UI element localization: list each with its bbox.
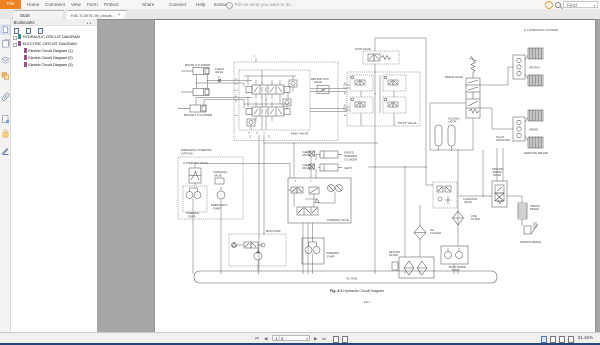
wire riser junction [482,150,484,196]
svg-text:BRAKE: BRAKE [530,207,539,211]
front slack adjuster [513,55,525,79]
svg-text:(LEFT): (LEFT) [344,166,352,170]
svg-text:VALVE: VALVE [302,166,310,170]
emergency charging valve [215,178,224,184]
steering valve box [288,178,351,223]
svg-text:PUMP: PUMP [452,268,460,272]
svg-text:LATOR: LATOR [448,120,457,124]
svg-text:A: A [295,180,297,183]
brake pump 2 [456,248,463,259]
parking brake actuator [522,219,538,234]
wire steering valve to tank [303,223,308,271]
oil cooler [414,226,426,240]
svg-text:STEERING: STEERING [344,154,357,158]
wire boom to main valve R2 [208,80,253,82]
svg-text:B3: B3 [344,83,346,85]
stop valve dashed box [363,51,399,64]
brake pump box [441,246,468,264]
svg-text:(FRONT): (FRONT) [529,66,540,70]
brake valve body [466,78,480,118]
status bar [0,332,600,343]
svg-text:Po2: Po2 [235,90,238,92]
svg-text:PILOT VALVE: PILOT VALVE [398,121,417,125]
wire cylinders to steering valve [311,155,320,179]
wire brake pump to tank [453,264,455,271]
svg-text:VALVE: VALVE [464,200,472,204]
svg-text:STEERING: STEERING [186,211,199,215]
page [155,20,595,332]
wire emergency pumps to tank [193,183,221,271]
wire main pump internals [237,245,264,271]
wire main valve spool stubs [251,80,293,130]
panel icon bookmarks (selected) [1,25,10,34]
svg-text:B: B [310,181,312,183]
accumulator 1 [435,125,442,146]
brake pump 1 [445,248,452,259]
main valve relief valve 3 [247,119,255,126]
panel icon signature [2,148,9,155]
wire right trunk down to charging valve [426,38,433,185]
rear brake disc lower [528,137,543,148]
wire stop valve riser [374,38,376,51]
menu bar [0,0,600,10]
line filter [453,211,464,225]
svg-text:T2: T2 [253,56,255,58]
wire main valve to pilot valve Po1 [310,109,347,112]
check valve [218,79,221,82]
steering cylinder right [320,151,342,158]
main pump relief [232,243,237,248]
wire bucket to main valve B1 [196,98,252,108]
wire parking valve risers [497,148,503,181]
steering valve meter [309,187,319,194]
main valve relief valve 2 [283,99,291,106]
return filter box [399,257,434,278]
front brake disc lower [528,75,543,86]
svg-text:STEERING VALVE: STEERING VALVE [327,218,349,222]
pilot valve unit 2 [383,75,406,91]
wire bucket to main valve A1 [204,100,244,109]
panel icon attachments [2,92,10,101]
wire return line [368,167,426,257]
svg-text:A2: A2 [235,83,237,86]
pilot valve unit 1 [350,75,373,91]
svg-text:PUMP: PUMP [327,255,335,259]
wire pilot valve center gallery [375,72,380,126]
parking brake valve [492,181,507,207]
main valve inner dashed box [239,70,310,130]
steering valve relief [315,199,319,203]
wire brake supply trunk [457,150,459,246]
svg-text:- 121 -: - 121 - [362,300,371,304]
wire steering valve internals [288,190,335,207]
wire main valve internal gallery [262,70,266,130]
svg-text:STEERING: STEERING [326,251,339,255]
emergency steering dashed box [178,157,243,219]
svg-text:A1: A1 [235,100,237,103]
svg-text:FILTER: FILTER [471,217,480,221]
wire main valve to pilot valve Po2 [310,89,347,92]
bucket cylinder [178,105,206,112]
steering pump (emergency) [186,188,201,199]
svg-text:PARKING BRAKE: PARKING BRAKE [520,240,541,244]
wire main valve pump line [263,135,265,235]
svg-text:CHARGING: CHARGING [213,170,227,174]
rear slack adjuster [513,117,525,141]
svg-text:B4: B4 [344,105,346,107]
steering pump [305,238,320,254]
return filter element 1 [404,261,414,275]
svg-text:BRAKE VALVE: BRAKE VALVE [445,75,463,79]
main valve spool 2 (bucket section) [246,107,290,116]
svg-text:EMERGENCY STEERING: EMERGENCY STEERING [181,148,212,152]
svg-text:(OPTION): (OPTION) [181,152,193,156]
wire accumulator bus [430,103,473,150]
panel icon security lock [3,130,8,138]
svg-text:6. HYDRAULIC SYSTEM: 6. HYDRAULIC SYSTEM [524,28,558,32]
emergency pump [217,187,225,199]
return filter bypass [392,262,398,270]
steering valve spool [297,207,318,215]
main pump dashed box [229,234,286,266]
main pump sensor [261,243,265,247]
svg-text:CYLINDER: CYLINDER [344,158,357,162]
svg-text:PUMP: PUMP [213,207,221,211]
wire pilot valve return to tank [374,126,376,271]
wire main valve tank return [258,135,260,271]
svg-text:PUMP: PUMP [188,215,196,219]
pilot valve unit 3 [350,97,373,113]
wire tank gallery under main valve [250,135,269,138]
charging valve dashed box [433,182,457,208]
port T2 stub [255,58,257,63]
stop valve [368,54,391,61]
svg-text:(P): (P) [256,133,259,135]
wire steering pump lines [312,223,314,271]
main valve spool 1 (boom section) [246,85,290,94]
svg-text:Po1: Po1 [235,115,238,117]
check valve (steering left) [309,164,315,169]
svg-text:BUCKET CYLINDER: BUCKET CYLINDER [184,113,213,117]
tab bar [0,9,600,19]
pilot valve unit 4 [383,97,406,113]
svg-text:VALVE: VALVE [214,174,222,178]
wire top feed line [375,37,426,39]
steering cylinder left [320,164,342,171]
panel icon page gear [3,116,10,124]
wire brake valve to rear brakes [480,108,528,141]
accumulator 2 [448,125,455,146]
wire parking valve to spring brake [507,196,522,203]
steering pump dashed box [183,186,207,212]
svg-text:ADJUSTER: ADJUSTER [496,138,510,142]
svg-text:MAIN PUMP: MAIN PUMP [266,229,281,233]
wire oil cooler line [419,205,421,257]
svg-text:OIL TANK: OIL TANK [346,277,358,281]
svg-text:A4: A4 [344,114,346,117]
wire charging to parking valve [459,195,492,197]
wire pilot valve port stubs [343,85,394,126]
wire boom to main valve A2 [197,82,245,84]
main pump [254,248,262,260]
spring brake [518,203,527,219]
svg-text:STOP VALVE: STOP VALVE [355,47,371,51]
svg-text:T1: T1 [263,133,265,135]
svg-text:(RIGHT): (RIGHT) [344,151,354,155]
svg-text:FILTER: FILTER [389,253,398,257]
svg-text:COOLER: COOLER [430,231,441,235]
svg-text:B1: B1 [235,96,237,98]
svg-text:A2: A2 [218,76,220,79]
main pump control valve [244,242,258,248]
svg-text:EMERGENCY: EMERGENCY [211,203,228,207]
boom cylinder 2 [181,89,209,96]
svg-text:BOOM CYLINDER: BOOM CYLINDER [185,63,211,67]
steering valve rotor 2 [336,185,343,192]
wire emergency steering outputs [195,164,290,179]
panel icon pages [3,39,10,47]
rear brake disc upper [528,110,543,121]
wire steering feed lines [264,143,378,178]
svg-text:A3: A3 [344,92,346,95]
wire brake valve to front brakes [480,55,528,85]
steering pump box [302,238,324,264]
svg-text:VALVE: VALVE [215,70,223,74]
pilot valve dashed box [347,72,420,126]
svg-text:VALVE: VALVE [314,80,322,84]
svg-text:MAIN VALVE: MAIN VALVE [291,132,309,136]
front brake disc upper [528,48,543,59]
node tank entries [192,271,194,274]
steering valve rotor 1 [328,185,335,192]
oil tank [194,271,497,283]
svg-text:(REAR): (REAR) [529,128,538,132]
panel icon thumbnails [2,73,9,80]
main valve relief valve 1 [289,80,297,87]
charging valve internals [437,186,451,204]
boom cylinder 1 [181,68,209,75]
steering valve direction section [291,187,303,193]
svg-text:P1: P1 [248,133,250,135]
check valve (steering right) [309,151,315,156]
main valve outer dashed enclosure [234,62,338,141]
svg-text:Fig. 6.2 Hydraulic Circuit D: Fig. 6.2 Hydraulic Circuit Diagram [330,289,384,293]
emergency steering valve [189,168,201,183]
svg-text:to STEERING VALVE: to STEERING VALVE [183,161,208,165]
svg-text:SERVICE BRAKE: SERVICE BRAKE [524,151,548,155]
brake valve pedal [469,56,477,78]
panel icon layers [2,57,9,64]
wire stop valve to pilot valve [374,64,376,72]
wire main valve internal rails [244,76,296,104]
return filter element 2 [417,261,427,275]
restriction valve [317,86,329,94]
wire boom cylinder interconnect [197,75,208,89]
svg-text:R2: R2 [235,79,237,81]
node boom lines [196,82,197,83]
